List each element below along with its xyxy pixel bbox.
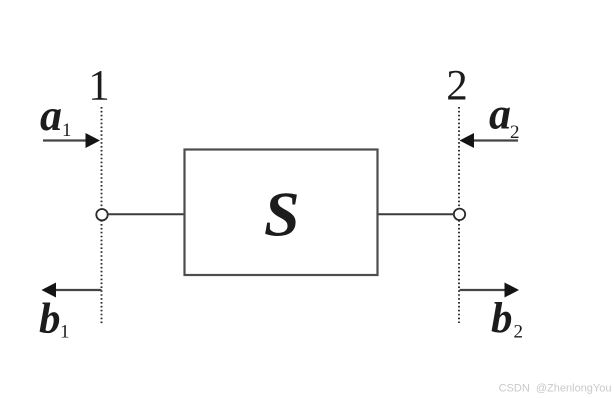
- reference plane 1 (dotted line, port 1): [101, 107, 103, 324]
- svg-text:1: 1: [62, 120, 72, 141]
- node terminal circle, port 2: [454, 209, 465, 220]
- svg-text:S: S: [264, 178, 300, 249]
- label a1 (incident wave, port 1): [40, 91, 72, 141]
- arrow a2 (into port 2): [460, 133, 519, 148]
- svg-text:CSDN @ZhenlongYou: CSDN @ZhenlongYou: [499, 383, 612, 395]
- scattering matrix label S: [264, 178, 300, 249]
- arrow a1 (into port 1): [43, 133, 100, 148]
- svg-text:b: b: [39, 295, 61, 342]
- two-port network box U1: [185, 150, 378, 276]
- label b1 (reflected wave, port 1): [39, 295, 70, 342]
- node terminal circle, port 1: [96, 209, 107, 220]
- svg-text:2: 2: [514, 322, 524, 343]
- label a2 (incident wave, port 2): [489, 90, 520, 144]
- svg-text:a: a: [40, 91, 62, 140]
- svg-text:1: 1: [60, 322, 70, 343]
- arrow b1 (out of port 1): [42, 283, 102, 298]
- label b2 (reflected wave, port 2): [491, 295, 523, 343]
- svg-text:1: 1: [88, 63, 110, 110]
- watermark: [499, 383, 612, 395]
- port 2 label "2": [446, 63, 468, 110]
- arrow b2 (out of port 2): [460, 283, 520, 298]
- svg-text:2: 2: [446, 63, 468, 110]
- port 1 label "1": [88, 63, 110, 110]
- wire: network box to port 2 node: [378, 213, 454, 215]
- svg-text:a: a: [489, 90, 511, 139]
- reference plane 2 (dotted line, port 2): [458, 107, 460, 323]
- svg-text:b: b: [491, 295, 513, 342]
- wire: port 1 node to network box: [108, 213, 184, 215]
